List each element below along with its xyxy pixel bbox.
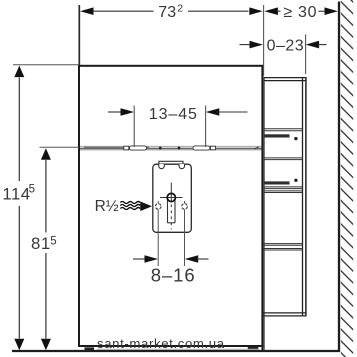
dim 13-45 line left: [108, 111, 123, 113]
supply pipe right wall: [174, 199, 176, 223]
dim 8-16 line right: [198, 258, 209, 260]
connection box raised plate: [159, 161, 183, 164]
screw right: [182, 204, 188, 210]
dim 0-23 line left: [240, 44, 252, 46]
dim 114.5 top arrow: [14, 66, 24, 78]
side crossbar 4: [264, 190, 303, 192]
dim 81.5 line: [45, 160, 47, 233]
screw left: [155, 204, 161, 210]
dim 0-23 right extension: [305, 35, 307, 75]
connection box: [153, 164, 192, 232]
dim 73 right arrow: [249, 7, 262, 15]
dim 73 line: [84, 10, 154, 12]
centerline horizontal: [160, 197, 183, 199]
side frame top bar: [264, 77, 307, 79]
side dark bracket 1: [265, 134, 290, 137]
dim 0-23 left arrow: [250, 41, 264, 49]
side dark bracket 2: [265, 181, 290, 184]
connection box notch left: [159, 164, 165, 169]
svg-text:13–45: 13–45: [149, 106, 198, 123]
dim 0-23 right arrow: [306, 41, 320, 49]
dim 81.5 top extension: [40, 146, 80, 148]
svg-text:73: 73: [158, 4, 176, 21]
dim 73: right extension: [263, 5, 265, 76]
svg-text:≥ 30: ≥ 30: [283, 4, 317, 21]
panel seam line 2: [80, 147, 262, 149]
dim 81.5 top arrow: [41, 148, 51, 160]
side frame left edge: [263, 77, 265, 350]
dim 8-16 right arrow: [185, 255, 199, 263]
dim 114.5 top extension: [13, 64, 79, 66]
water valve: [167, 193, 175, 201]
svg-text:114: 114: [2, 184, 30, 203]
side screw dot 2: [294, 179, 297, 182]
side frame right rail outer: [305, 78, 307, 317]
dim 13-45 left tick: [133, 106, 135, 148]
dim 13-45 left arrow: [121, 108, 135, 116]
side crossbar 3: [264, 186, 303, 188]
svg-text:5: 5: [50, 235, 56, 247]
dim 8-16 left arrow: [145, 255, 159, 263]
panel seam line 3: [80, 149, 262, 151]
centerline vertical: [170, 183, 172, 202]
water wave symbol: [120, 202, 140, 204]
dim 81.5 bottom arrow: [41, 339, 51, 351]
seam right tick: [255, 147, 259, 149]
dim 13-45 right tick: [205, 106, 207, 148]
svg-text:R½: R½: [95, 198, 119, 215]
seam slider left: [130, 146, 147, 150]
panel seam line 1: [80, 145, 262, 147]
extension line left of 8-16: [157, 209, 159, 266]
dim 0-23 line right: [318, 44, 327, 46]
wall: [338, 2, 340, 352]
svg-text:2: 2: [177, 2, 183, 14]
dim 114.5 bottom arrow: [14, 339, 24, 351]
dim 13-45 right arrow: [206, 108, 220, 116]
svg-text:0–23: 0–23: [267, 37, 305, 54]
seam dot 1: [159, 147, 162, 150]
side screw dot 1: [294, 137, 297, 140]
dim 114.5 line: [18, 78, 20, 182]
dim 73: left extension: [78, 5, 80, 65]
R1/2 arrow: [140, 202, 152, 212]
svg-text:81: 81: [31, 234, 51, 253]
dim 73 left arrow: [80, 7, 94, 15]
right foot: [248, 347, 258, 351]
wall hatching: [341, 0, 353, 357]
side frame right rail inner: [302, 78, 304, 317]
dim 8-16 line left: [133, 258, 147, 260]
dim >=30 line: [319, 10, 327, 12]
side crossbar 5: [263, 243, 303, 245]
dim >=30 left arrow: [264, 7, 278, 15]
extension line right of 8-16: [184, 209, 186, 266]
seam dot 2: [178, 147, 181, 150]
left foot: [85, 347, 95, 350]
seam left dark segment: [84, 146, 149, 148]
supply pipe bottom: [168, 222, 176, 224]
supply pipe left wall: [167, 199, 169, 223]
floor: [12, 350, 340, 352]
seam clip square right: [211, 146, 216, 150]
side crossbar 6: [263, 248, 303, 250]
seam slider right: [193, 146, 210, 150]
seam clip square left: [124, 146, 129, 150]
watermark underline: [97, 348, 258, 350]
module front panel: [79, 66, 262, 346]
connection box notch right: [179, 164, 185, 169]
dim 13-45 line right: [219, 111, 248, 113]
screw left tick: [157, 201, 159, 203]
svg-text:8–16: 8–16: [151, 264, 196, 285]
side crossbar 1: [264, 128, 303, 130]
svg-text:5: 5: [29, 184, 35, 196]
dim >=30 right arrow: [325, 7, 339, 15]
side bottom bar: [263, 312, 306, 314]
side crossbar 2: [264, 157, 303, 159]
screw right tick: [184, 201, 186, 203]
